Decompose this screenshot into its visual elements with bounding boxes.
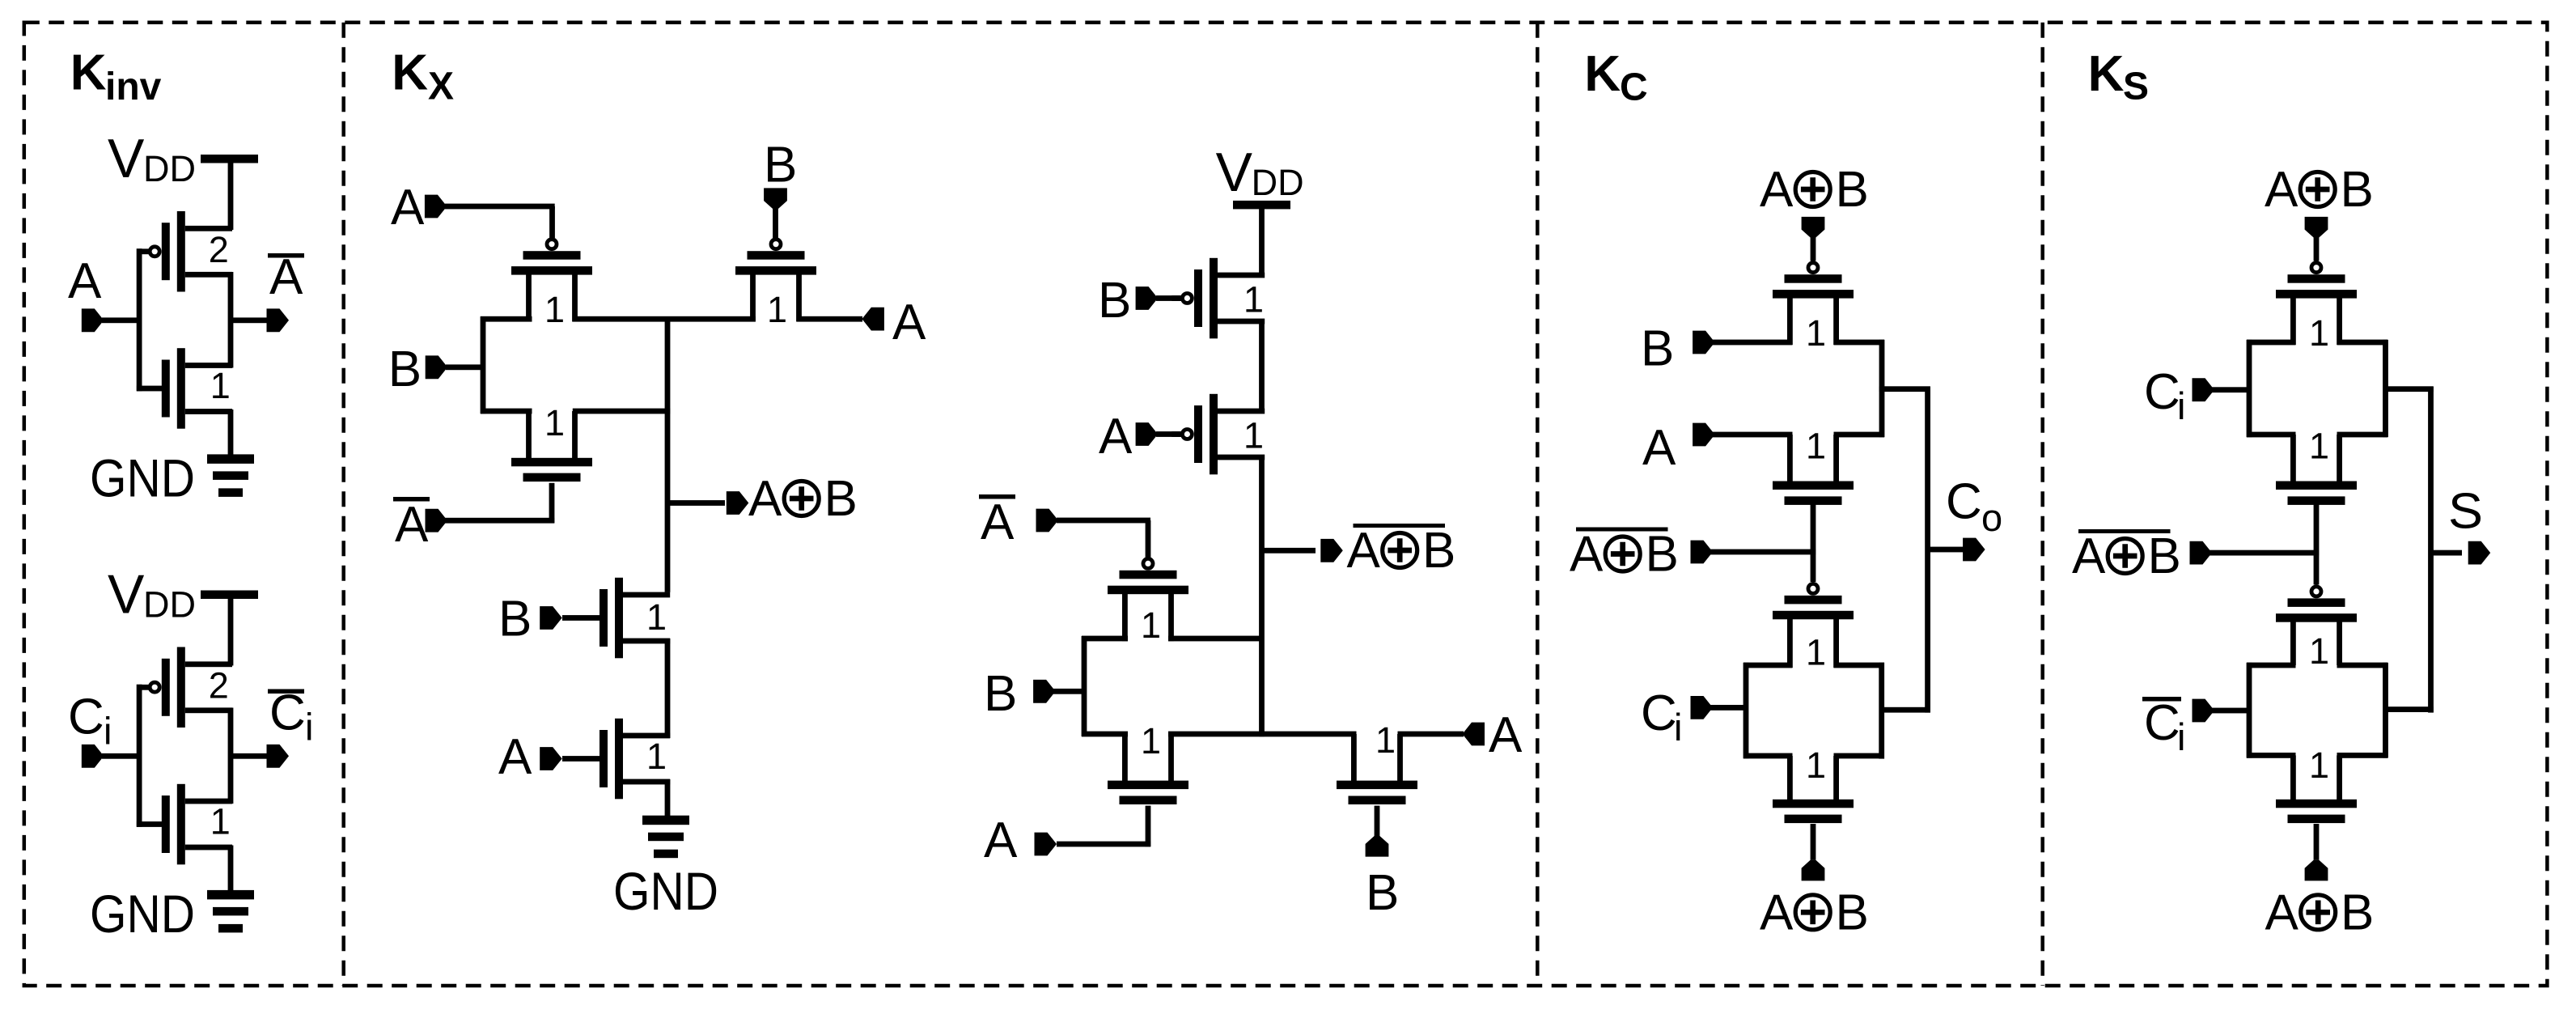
svg-text:DD: DD <box>143 148 196 189</box>
svg-text:C: C <box>2144 695 2180 751</box>
svg-text:K: K <box>1584 46 1621 102</box>
input port arrow A <box>82 308 104 332</box>
input port arrow A <box>425 195 447 218</box>
input port arrow Ci-bar (K_S) <box>2193 699 2215 723</box>
svg-text:DD: DD <box>1252 162 1304 203</box>
svg-text:i: i <box>1674 706 1682 749</box>
wire gate net vertical <box>137 685 162 827</box>
label output A xor B <box>748 471 858 527</box>
label input Ci-bar (K_S) <box>2142 695 2185 758</box>
output port arrow Co <box>1963 538 1985 562</box>
wire TG2 NMOS gate to arrow (K_S) <box>2314 824 2320 860</box>
svg-text:B: B <box>498 592 532 647</box>
output port arrow S <box>2468 541 2491 565</box>
svg-text:1: 1 <box>1141 605 1161 646</box>
transistor 1 NMOS (gate AxorB-bar, passes A) <box>1773 435 1854 505</box>
wire jog to output rail <box>1879 386 1930 392</box>
wire between stack transistors <box>665 639 671 738</box>
svg-text:A: A <box>68 253 102 309</box>
input port arrow A from right (XNOR) <box>1463 723 1485 746</box>
wire TG1 upper-left horizontal (K_S) <box>2247 340 2296 346</box>
wire output tap A xor B <box>667 500 725 506</box>
wire gate net between structures <box>1811 502 1816 582</box>
wire output tap <box>231 753 267 759</box>
wire sum output rail <box>2428 387 2434 713</box>
wire B arrow to PMOS gate bubble <box>773 207 778 238</box>
label output A xor B inverted <box>1347 523 1456 579</box>
svg-text:A: A <box>2265 162 2298 218</box>
svg-text:K: K <box>70 45 107 100</box>
svg-text:A: A <box>984 812 1018 868</box>
svg-text:B: B <box>2341 162 2374 218</box>
wire A arrow to bubble <box>1156 431 1181 437</box>
svg-text:A: A <box>2265 885 2299 940</box>
wire TG1 lower-left horizontal (K_S) <box>2247 432 2296 438</box>
input port arrow A (XNOR) <box>1136 422 1159 446</box>
wire Ci to left rail <box>1710 705 1748 711</box>
svg-text:B: B <box>388 342 422 397</box>
wire PMOS right terminal to jog <box>1834 340 1885 346</box>
transistor 1 PMOS of TG1 (gate AxorB, passes Ci) <box>2276 263 2357 345</box>
wire VDD to PMOS B drain <box>1259 205 1265 278</box>
svg-text:1: 1 <box>1141 720 1161 762</box>
wire pass PMOS right terminal to A port <box>797 316 862 322</box>
wire jog to sum rail (K_S bottom) <box>2383 706 2434 712</box>
input port arrow Ci (K_S) <box>2193 378 2215 401</box>
input port arrow AxorB-bar (K_S) <box>2190 541 2213 565</box>
svg-text:1: 1 <box>2309 745 2329 786</box>
svg-text:K: K <box>392 45 428 101</box>
label input A xor B (top) <box>1760 162 1869 218</box>
svg-text:1: 1 <box>2309 630 2329 672</box>
input port arrow C <box>82 745 104 768</box>
wire carry output rail <box>1925 387 1930 713</box>
svg-text:i: i <box>104 710 112 753</box>
wire jog vertical (K_S bottom) <box>2383 663 2388 758</box>
transistor 1 PMOS (gate AxorB, passes B) <box>1773 263 1854 345</box>
svg-text:A: A <box>981 494 1015 550</box>
wire input to gate <box>102 753 142 759</box>
wire TG2 lower-left horizontal (K_S) <box>2247 753 2296 758</box>
transistor 1 PMOS pass (gate B, passes A) <box>735 240 816 322</box>
wire arrow to bubble (K_S) <box>2314 235 2320 261</box>
wire TG upper-right horizontal (K_C) <box>1834 663 1885 668</box>
svg-text:2: 2 <box>209 229 229 270</box>
wire B to left rail <box>446 364 485 370</box>
svg-text:i: i <box>2177 715 2185 758</box>
wire TG2 upper-right horizontal (K_S) <box>2337 663 2388 668</box>
label input A xor B (bottom) <box>1760 885 1869 940</box>
wire stack source to ground <box>665 779 671 817</box>
panel title K_X <box>392 45 454 108</box>
wire A to NMOS gate <box>562 756 600 762</box>
wire A to TG NMOS gate <box>1057 806 1150 847</box>
input port arrow B pointing up <box>1366 836 1389 857</box>
input port arrow A xor B down (K_S) <box>2305 217 2328 238</box>
wire output tap XNOR <box>1264 548 1316 554</box>
svg-text:inv: inv <box>105 66 162 108</box>
svg-text:1: 1 <box>1806 745 1826 786</box>
power rail VDD bar <box>201 591 258 600</box>
svg-text:B: B <box>824 471 858 527</box>
wire XNOR output rail <box>1259 455 1265 736</box>
wire center output rail (XOR node) <box>665 316 671 592</box>
svg-text:V: V <box>108 128 145 189</box>
input port arrow A (K_C) <box>1693 423 1715 447</box>
svg-text:A: A <box>395 497 429 553</box>
svg-text:A: A <box>748 471 782 527</box>
wire AxorB-bar to gate net (K_S) <box>2210 550 2319 556</box>
transistor 1 PMOS of TG (gate AxorB-bar, passes Ci) <box>1773 583 1854 668</box>
svg-text:1: 1 <box>1806 632 1826 673</box>
svg-text:A: A <box>1099 409 1133 465</box>
net VDD label (inverter) <box>108 128 196 189</box>
transistor 1 PMOS (gate B) pull-up <box>1171 258 1265 339</box>
input port arrow A (XNOR TG) <box>1035 833 1057 856</box>
net VDD label (inverter) <box>108 564 196 626</box>
svg-text:B: B <box>1366 865 1399 921</box>
svg-text:C: C <box>68 689 104 745</box>
label input Ci (K_C) <box>1641 685 1682 749</box>
label output Co <box>1946 473 2002 539</box>
svg-text:B: B <box>1422 523 1455 579</box>
svg-text:i: i <box>305 706 313 749</box>
wire left rail Ci node (K_S) <box>2247 340 2252 437</box>
input port arrow A from right <box>862 308 884 331</box>
svg-text:A: A <box>2072 528 2106 584</box>
svg-text:1: 1 <box>544 402 565 443</box>
wire A to NMOS left terminal <box>1713 432 1793 438</box>
svg-text:B: B <box>1098 273 1131 329</box>
input port arrow B (stack) <box>540 606 562 630</box>
svg-text:1: 1 <box>2309 426 2329 467</box>
input port arrow Ci (K_C) <box>1691 696 1714 719</box>
wire TG lower-right horizontal (K_C) <box>1834 753 1885 759</box>
svg-text:1: 1 <box>2309 312 2329 354</box>
svg-text:1: 1 <box>1806 312 1826 354</box>
wire carry output tap <box>1930 547 1964 553</box>
ground symbol <box>207 890 254 933</box>
wire NMOS right terminal to jog <box>1834 432 1885 438</box>
transistor 1 NMOS of TG1 (gate AxorB-bar) <box>2276 435 2357 505</box>
transistor 1 PMOS of transmission gate (gate A) <box>511 240 592 322</box>
input port arrow B (XNOR) <box>1136 286 1159 310</box>
svg-text:A: A <box>498 729 532 785</box>
transistor 1 NMOS of TG (gate A) <box>1108 734 1188 804</box>
svg-text:A: A <box>1347 523 1381 579</box>
label input A xor B inverted (K_S) <box>2072 528 2181 584</box>
wire Ci-bar to left rail (K_S) <box>2212 708 2252 714</box>
input port arrow A (stack) <box>540 747 562 770</box>
wire jog to sum rail <box>2383 386 2434 392</box>
wire B to NMOS gate <box>562 615 600 621</box>
svg-text:A: A <box>1642 420 1676 476</box>
svg-text:1: 1 <box>646 736 667 777</box>
output port arrow A xor B <box>727 491 749 515</box>
transistor 1 NMOS pull-down <box>162 784 232 865</box>
svg-text:B: B <box>984 666 1017 722</box>
input port arrow A xor B pointing down <box>1802 217 1825 238</box>
wire output tap <box>231 317 267 323</box>
transistor 1 PMOS of TG (gate A-bar) <box>1108 558 1188 641</box>
wire jog vertical (K_S top) <box>2383 340 2388 437</box>
power rail VDD bar (XNOR) <box>1233 201 1290 210</box>
svg-text:1: 1 <box>1244 415 1264 456</box>
wire PMOS B source to PMOS A drain <box>1259 319 1265 414</box>
input port arrow A xor B pointing up <box>1802 860 1825 881</box>
input port arrow A-bar (XNOR TG) <box>1036 509 1059 532</box>
input port arrow B <box>426 355 448 379</box>
wire A-bar to TG PMOS gate <box>1057 518 1150 558</box>
wire pass NMOS to A port <box>1398 732 1464 737</box>
wire jog to output rail (K_C bottom) <box>1879 707 1930 713</box>
svg-text:GND: GND <box>90 884 195 944</box>
label input A-bar (XNOR TG) <box>979 494 1015 550</box>
wire left rail (B node) <box>481 316 486 414</box>
wire input to gate <box>102 317 142 323</box>
svg-text:X: X <box>428 65 454 108</box>
panel title K_C <box>1584 46 1647 109</box>
wire TG upper-left horizontal <box>481 316 532 322</box>
svg-text:o: o <box>1981 496 2002 539</box>
wire pass NMOS gate to B arrow <box>1375 806 1380 838</box>
svg-text:i: i <box>2177 384 2185 427</box>
transistor 1 PMOS (gate A) pull-up <box>1171 394 1265 475</box>
svg-text:1: 1 <box>1806 426 1826 467</box>
wire NMOS source to ground <box>228 846 234 891</box>
svg-text:GND: GND <box>613 861 718 921</box>
input port arrow B (XNOR TG) <box>1033 680 1056 703</box>
svg-text:A: A <box>1489 707 1523 763</box>
svg-text:S: S <box>2123 65 2149 108</box>
output port arrow XNOR <box>1320 539 1343 562</box>
input port arrow AxorB-bar (K_C) <box>1691 541 1714 564</box>
svg-text:S: S <box>2448 483 2483 539</box>
svg-text:B: B <box>2148 528 2181 584</box>
svg-text:C: C <box>2144 364 2180 420</box>
wire TG lower-left horizontal <box>481 409 532 414</box>
label input A xor B inverted (K_C) <box>1570 527 1679 583</box>
svg-text:A: A <box>391 180 425 235</box>
wire TG2 upper-left horizontal (K_S) <box>2247 663 2296 668</box>
label input A xor B (K_S top) <box>2265 162 2374 218</box>
svg-text:A: A <box>892 295 926 350</box>
wire TG lower-right horizontal <box>573 409 670 414</box>
label input A <box>68 253 102 309</box>
wire arrow to PMOS bubble <box>1811 235 1816 261</box>
input port arrow A-bar <box>426 509 448 532</box>
wire B to left rail (XNOR) <box>1053 689 1087 694</box>
wire output node rail <box>228 272 234 368</box>
wire left rail Ci node (K_C) <box>1743 663 1749 759</box>
svg-text:V: V <box>108 564 145 626</box>
label input A xor B (K_S bottom) <box>2265 885 2375 940</box>
svg-text:1: 1 <box>646 596 667 638</box>
wire TG1 upper-right horizontal (K_S) <box>2337 340 2388 346</box>
wire left rail Ci-bar node (K_S) <box>2247 663 2252 758</box>
svg-text:B: B <box>2341 885 2374 940</box>
wire VDD to PMOS drain <box>228 595 234 666</box>
wire TG2 lower-right horizontal (K_S) <box>2337 753 2388 758</box>
svg-text:B: B <box>1836 162 1869 218</box>
svg-text:B: B <box>1836 885 1869 940</box>
wire sum output tap <box>2433 550 2462 556</box>
svg-text:1: 1 <box>1244 279 1264 320</box>
wire jog vertical (K_C top) <box>1879 340 1885 437</box>
input port arrow B pointing down <box>764 188 787 209</box>
wire NMOS source to ground <box>228 409 234 455</box>
svg-text:B: B <box>764 138 797 193</box>
wire TG upper-left horizontal (K_C) <box>1743 663 1793 668</box>
svg-text:A: A <box>1760 885 1794 940</box>
wire A-bar to NMOS gate <box>445 483 554 524</box>
svg-text:K: K <box>2088 46 2125 102</box>
wire TG upper-right horizontal to output node <box>573 316 756 322</box>
transistor 2 PMOS pull-up <box>139 211 232 292</box>
input port arrow B (K_C) <box>1693 331 1715 354</box>
wire output node rail <box>228 708 234 804</box>
output port arrow C <box>267 745 290 768</box>
transistor 1 NMOS (gate B) of pull-down stack <box>600 578 670 659</box>
svg-text:1: 1 <box>544 289 565 330</box>
wire jog vertical (K_C bottom) <box>1879 663 1884 759</box>
label input C <box>68 689 112 753</box>
label output C (inverted) <box>268 685 313 749</box>
wire gate net vertical <box>137 248 162 391</box>
svg-text:V: V <box>1216 142 1253 203</box>
svg-text:1: 1 <box>210 365 231 406</box>
power rail VDD bar <box>201 155 258 163</box>
transistor 1 NMOS of transmission gate (gate A-bar) <box>511 411 592 482</box>
transistor 1 NMOS of TG2 (gate AxorB) <box>2276 755 2357 823</box>
svg-text:B: B <box>1646 527 1679 583</box>
svg-text:1: 1 <box>1375 719 1396 761</box>
wire TG lower-left horizontal (XNOR) <box>1082 732 1128 737</box>
svg-text:A: A <box>1760 162 1794 218</box>
wire gate net between TGs (K_S) <box>2314 502 2320 585</box>
wire AxorB-bar to gate net <box>1710 549 1815 555</box>
svg-text:B: B <box>1641 320 1674 376</box>
svg-text:1: 1 <box>210 801 231 842</box>
transistor 1 NMOS of TG (gate AxorB) <box>1773 756 1854 823</box>
panel title K_inv <box>70 45 162 108</box>
svg-text:C: C <box>1946 473 1982 529</box>
label input A-bar <box>393 497 430 553</box>
wire A to transmission gate PMOS gate <box>445 204 555 238</box>
wire left rail B node (XNOR) <box>1082 636 1087 736</box>
ground symbol (K_X) <box>642 816 689 858</box>
svg-text:GND: GND <box>90 448 195 508</box>
wire B arrow to bubble <box>1156 295 1181 301</box>
svg-text:DD: DD <box>143 584 196 626</box>
transistor 1 NMOS pass (gate B, passes A) <box>1337 734 1417 804</box>
input port arrow A xor B up (K_S) <box>2305 860 2328 881</box>
wire TG lower-left horizontal (K_C) <box>1743 753 1793 759</box>
wire VDD to PMOS drain <box>228 159 234 230</box>
net VDD label (XNOR) <box>1216 142 1304 203</box>
ground symbol <box>207 454 254 497</box>
wire TG upper-right horizontal (XNOR) <box>1168 636 1265 642</box>
wire Ci to left rail (K_S) <box>2212 387 2252 392</box>
label input Ci (K_S) <box>2144 364 2185 427</box>
svg-text:C: C <box>1620 66 1648 109</box>
transistor 1 PMOS of TG2 (gate AxorB-bar, passes Ci-bar) <box>2276 587 2357 665</box>
label output A (inverted) <box>268 249 304 305</box>
panel title K_S <box>2088 46 2149 108</box>
svg-text:A: A <box>1570 527 1604 583</box>
wire TG NMOS gate to arrow <box>1811 824 1816 860</box>
transistor 1 NMOS (gate A) of pull-down stack <box>600 719 670 800</box>
wire TG upper-left horizontal (XNOR) <box>1082 636 1128 642</box>
svg-text:C: C <box>1641 685 1677 741</box>
wire TG1 lower-right horizontal (K_S) <box>2337 432 2388 438</box>
svg-text:1: 1 <box>767 289 787 330</box>
transistor 2 PMOS pull-up <box>139 647 232 728</box>
wire bottom node to pass NMOS <box>1168 732 1357 737</box>
output port arrow A <box>267 308 290 332</box>
transistor 1 NMOS pull-down <box>162 348 232 429</box>
svg-text:2: 2 <box>209 665 229 706</box>
wire B to PMOS left terminal <box>1713 340 1793 346</box>
